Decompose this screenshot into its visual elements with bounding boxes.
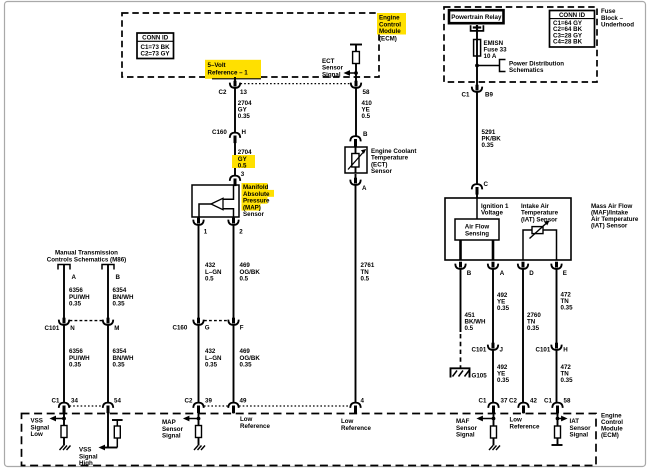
svg-text:Sensor: Sensor <box>371 168 393 175</box>
svg-text:0.5: 0.5 <box>238 163 247 170</box>
VSS signal high circuit <box>79 408 123 467</box>
svg-text:0.35: 0.35 <box>497 377 510 384</box>
svg-text:(ECM): (ECM) <box>379 35 397 42</box>
powertrain relay K1 box <box>449 10 504 23</box>
node pin C (MAF) <box>472 181 489 195</box>
svg-text:C1: C1 <box>544 397 552 404</box>
svg-text:Signal: Signal <box>162 433 181 440</box>
IAT sensor signal circuit <box>552 408 592 445</box>
svg-text:58: 58 <box>363 89 370 96</box>
svg-text:Powertrain Relay: Powertrain Relay <box>451 14 502 21</box>
node pin B (ECT) <box>350 131 368 147</box>
wire 6356 PU/WH 0.35 lower <box>64 325 90 403</box>
svg-text:0.5: 0.5 <box>205 276 214 283</box>
svg-text:J: J <box>500 347 504 354</box>
MAP sensor U1 box <box>192 185 239 217</box>
node C2 pin 42 <box>509 397 537 413</box>
ECT sensor box <box>345 147 367 173</box>
svg-text:A: A <box>72 274 77 281</box>
fuse EMISN 33 body <box>474 40 481 57</box>
VSS signal low circuit <box>31 408 71 450</box>
svg-text:C1: C1 <box>52 397 60 404</box>
svg-text:(IAT) Sensor: (IAT) Sensor <box>591 223 628 230</box>
wire 432 L-GN 0.35 <box>199 325 223 403</box>
svg-text:37: 37 <box>501 397 508 404</box>
node C1 pin B9 <box>462 85 494 99</box>
svg-text:58: 58 <box>564 397 571 404</box>
svg-text:(ECM): (ECM) <box>601 432 619 439</box>
svg-text:C: C <box>484 181 489 188</box>
svg-text:0.35: 0.35 <box>113 362 126 369</box>
wire to power distribution bracket <box>477 60 564 75</box>
svg-text:13: 13 <box>240 89 247 96</box>
node pin 58 <box>351 81 370 96</box>
node C1 pin 37 <box>479 397 508 413</box>
wire stub pin 13 <box>234 77 236 82</box>
wires AFS to pins B and A <box>459 240 462 260</box>
svg-text:C101: C101 <box>536 347 551 354</box>
node C101 pin J <box>472 343 504 354</box>
svg-text:5–Volt: 5–Volt <box>208 62 226 69</box>
wire 469 OG/BK 0.35 <box>234 325 261 403</box>
label Manifold Absolute Pressure (MAP) Sensor <box>242 183 275 218</box>
MAP sensor signal circuit <box>162 408 205 450</box>
node C101 pin M <box>103 318 120 332</box>
svg-text:C1: C1 <box>479 397 487 404</box>
wire 492 YE 0.35 lower <box>493 350 510 403</box>
svg-text:2704: 2704 <box>238 149 252 156</box>
svg-text:Underhood: Underhood <box>601 22 634 29</box>
svg-text:0.35: 0.35 <box>238 113 251 120</box>
resistor (VSS low) <box>61 426 67 438</box>
svg-text:C160: C160 <box>173 325 188 332</box>
svg-text:Signal: Signal <box>570 432 589 439</box>
svg-text:Reference: Reference <box>240 423 270 430</box>
node C2 pin 39 <box>185 397 213 413</box>
wire 2761 TN 0.5 <box>356 185 375 403</box>
MAF sensor signal circuit <box>456 408 500 450</box>
svg-text:F: F <box>240 325 244 332</box>
wire ignition to air flow sensing <box>476 198 478 219</box>
svg-text:N: N <box>70 325 75 332</box>
wire 492 YE 0.35 upper <box>493 269 510 344</box>
node pin 3 <box>230 171 245 186</box>
svg-text:C2: C2 <box>509 397 517 404</box>
node C2 pin 49 <box>228 397 247 413</box>
svg-text:A: A <box>500 270 505 277</box>
node C2 pin 13 <box>219 81 248 96</box>
low reference stub pin 49 <box>234 408 271 430</box>
svg-text:Sensing: Sensing <box>465 231 489 238</box>
wire 472 TN 0.35 lower <box>557 350 574 403</box>
svg-text:Sensor: Sensor <box>243 211 265 218</box>
svg-text:B: B <box>467 270 472 277</box>
svg-text:1: 1 <box>204 229 208 236</box>
MAF/IAT sensor box <box>445 198 571 260</box>
svg-text:B9: B9 <box>485 92 493 99</box>
wire 6354 BN/WH 0.35 upper <box>108 265 134 320</box>
svg-text:Low: Low <box>31 431 44 438</box>
svg-text:54: 54 <box>114 397 121 404</box>
node C1 pin 34 <box>52 397 79 413</box>
node C160 pin F <box>228 318 244 332</box>
ECM bottom dashed box <box>22 414 597 466</box>
svg-text:0.35: 0.35 <box>69 362 82 369</box>
svg-text:C1: C1 <box>462 92 470 99</box>
node MAP pin 2 <box>228 217 243 236</box>
node pin A (MAF) <box>488 262 505 277</box>
node pin B (MAF) <box>455 262 472 277</box>
dotted connector line 34-54 <box>70 405 103 407</box>
svg-text:C2=73 GY: C2=73 GY <box>141 50 171 57</box>
resistor (VSS high pull-up) <box>114 426 120 438</box>
svg-text:H: H <box>563 347 568 354</box>
label Engine Coolant Temperature (ECT) Sensor <box>371 148 416 175</box>
svg-text:0.35: 0.35 <box>240 362 253 369</box>
wire 6356 PU/WH 0.35 upper <box>64 265 90 320</box>
svg-text:C160: C160 <box>212 129 227 136</box>
svg-text:0.35: 0.35 <box>561 377 574 384</box>
dotted connector line 39-49 <box>204 405 228 407</box>
svg-text:34: 34 <box>71 397 78 404</box>
svg-text:Voltage: Voltage <box>481 210 503 217</box>
dashed wire to G105 <box>460 334 462 369</box>
svg-text:0.35: 0.35 <box>482 142 495 149</box>
CONN ID table (ECM) <box>137 33 174 59</box>
svg-text:High: High <box>79 460 93 467</box>
node C101 pin H <box>536 343 569 354</box>
wire 6354 BN/WH 0.35 lower <box>108 325 134 403</box>
Fuse Block dashed box <box>444 7 597 82</box>
node pin A (ECT) <box>350 174 367 192</box>
thermistor RT (ECT) <box>352 154 359 168</box>
node pin E (MAF) <box>551 262 567 277</box>
relay contact <box>471 25 484 31</box>
svg-text:0.35: 0.35 <box>497 305 510 312</box>
node C1 pin 58 (IAT) <box>544 397 571 413</box>
svg-text:G: G <box>205 325 210 332</box>
svg-text:10 A: 10 A <box>484 53 497 60</box>
label Intake Air Temperature (IAT) Sensor <box>521 203 559 224</box>
svg-text:(IAT) Sensor: (IAT) Sensor <box>521 216 558 223</box>
wire 410 YE 0.5 <box>356 88 372 137</box>
wire 469 OG/BK 0.5 <box>234 225 261 319</box>
svg-text:Reference: Reference <box>510 423 540 430</box>
wire fuse to C1 B9 <box>476 66 478 86</box>
label Engine Control Module (ECM) bottom <box>601 413 623 440</box>
fuse EMISN Fuse 33 10 A <box>474 40 508 66</box>
svg-text:H: H <box>242 129 247 136</box>
svg-text:C2: C2 <box>219 89 227 96</box>
node C2 pin 4 <box>350 397 364 413</box>
thermistor RT (IAT) <box>532 227 543 234</box>
svg-text:E: E <box>563 270 567 277</box>
svg-text:0.5: 0.5 <box>362 113 371 120</box>
svg-text:C2: C2 <box>185 397 193 404</box>
svg-text:2: 2 <box>239 229 243 236</box>
node C160 pin H <box>212 129 247 143</box>
arrow ECT sensor signal <box>347 72 356 74</box>
svg-text:CONN ID: CONN ID <box>559 12 586 19</box>
low reference stub pin 4 <box>341 408 371 432</box>
dashed connector line N-M <box>70 320 103 322</box>
dotted connector line 49-4 <box>239 405 350 407</box>
node MAP pin 1 <box>193 217 208 236</box>
IAT thermistor RT1 <box>523 221 557 261</box>
svg-text:0.5: 0.5 <box>465 325 474 332</box>
wire 472 TN 0.35 upper <box>557 269 574 344</box>
svg-text:G105: G105 <box>472 373 488 380</box>
ECM top dashed box <box>122 13 379 77</box>
svg-text:42: 42 <box>530 397 537 404</box>
svg-text:0.35: 0.35 <box>69 301 82 308</box>
label Mass Air Flow (MAF)/Intake Air Temperature (IAT) Sensor <box>591 203 639 230</box>
air flow sensing box <box>455 219 499 240</box>
svg-text:0.5: 0.5 <box>361 276 370 283</box>
svg-text:0.5: 0.5 <box>240 276 249 283</box>
svg-text:Module: Module <box>379 28 401 35</box>
svg-text:Signal: Signal <box>322 71 341 78</box>
svg-text:0.35: 0.35 <box>561 305 574 312</box>
ground (VSS low) <box>60 446 71 451</box>
svg-text:0.35: 0.35 <box>527 325 540 332</box>
wire 2704 GY 0.5 (highlighted) <box>232 140 255 177</box>
svg-text:4: 4 <box>361 397 365 404</box>
dotted connector line 13-58 <box>241 83 351 85</box>
label Engine Control Module (ECM) top <box>377 13 406 42</box>
ground (MAP signal) <box>194 446 205 451</box>
label 5-Volt Reference - 1 <box>205 60 261 79</box>
off-page bracket B <box>102 265 121 282</box>
low reference stub pin 42 <box>510 408 540 430</box>
svg-text:D: D <box>529 270 534 277</box>
label Fuse Block - Underhood <box>601 8 634 29</box>
svg-text:3: 3 <box>241 171 245 178</box>
svg-text:M: M <box>114 325 119 332</box>
svg-text:Controls Schematics (M86): Controls Schematics (M86) <box>47 256 126 263</box>
svg-text:Reference: Reference <box>341 425 371 432</box>
wire 2704 GY 0.35 <box>235 88 252 134</box>
svg-text:C101: C101 <box>45 325 60 332</box>
svg-text:B: B <box>363 131 368 138</box>
node C160 pin G <box>173 318 210 332</box>
off-page bracket A <box>58 265 77 282</box>
label Ignition 1 Voltage <box>481 203 509 217</box>
wire relay to fuse <box>476 29 478 40</box>
svg-text:C4=28 BK: C4=28 BK <box>553 39 583 46</box>
resistor (ECT signal pull-up) <box>353 52 360 64</box>
svg-text:Signal: Signal <box>456 432 475 439</box>
wire 2760 TN 0.35 <box>523 269 541 403</box>
ground (MAF signal) <box>489 446 500 451</box>
svg-text:A: A <box>362 185 367 192</box>
ECT sensor signal circuit inside ECM <box>322 45 362 82</box>
wire 5291 PK/BK 0.35 <box>477 92 501 185</box>
resistor (IAT signal) <box>555 426 561 438</box>
resistor (MAF signal) <box>491 426 497 438</box>
junction node <box>475 64 479 68</box>
svg-text:Reference – 1: Reference – 1 <box>208 70 249 77</box>
svg-text:B: B <box>116 274 121 281</box>
svg-text:C101: C101 <box>472 347 487 354</box>
node pin D (MAF) <box>518 262 535 277</box>
svg-text:0.35: 0.35 <box>113 301 126 308</box>
svg-text:CONN ID: CONN ID <box>142 35 169 42</box>
dashed connector line G-F <box>204 320 228 322</box>
svg-text:49: 49 <box>240 397 247 404</box>
svg-text:Schematics: Schematics <box>509 67 544 74</box>
label Manual Transmission Controls Schematics (M86) <box>47 250 126 264</box>
svg-text:39: 39 <box>205 397 212 404</box>
resistor (MAP signal) <box>196 426 202 438</box>
ground G105 <box>451 368 488 379</box>
node C101 pin N <box>45 318 76 332</box>
svg-text:0.35: 0.35 <box>205 362 218 369</box>
CONN ID table (fuse block) <box>550 11 595 48</box>
wire 451 BK/WH 0.5 <box>461 269 486 332</box>
wire 432 L-GN 0.5 <box>199 225 223 319</box>
node C1 pin 54 <box>103 397 122 413</box>
